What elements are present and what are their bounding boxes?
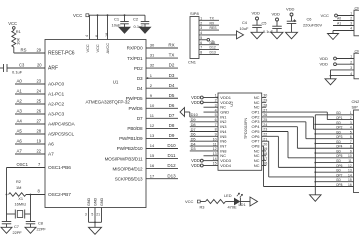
svg-text:A7: A7	[48, 152, 54, 158]
wire VDD to U2	[203, 160, 218, 162]
wire net D7 to IN4	[190, 131, 218, 133]
svg-text:A0-PC0: A0-PC0	[48, 82, 65, 88]
wire / net A0 to U1	[15, 83, 45, 85]
resistor R2 1M	[9, 193, 27, 197]
wire to C3	[0, 67, 4, 69]
wire GND pin 3	[88, 208, 90, 223]
wire U1 pin 32 net D2	[146, 67, 178, 69]
svg-text:2: 2	[200, 21, 202, 25]
stub NC	[262, 155, 267, 157]
svg-text:20: 20	[37, 63, 42, 68]
svg-text:MOSI/PW/PB3/D11: MOSI/PW/PB3/D11	[105, 156, 144, 161]
svg-text:0.1uF: 0.1uF	[263, 29, 274, 34]
svg-text:VCC: VCC	[321, 13, 330, 18]
wire OP7 to CN2 pin 14	[262, 140, 269, 142]
ground under C8	[25, 227, 36, 233]
svg-text:10uF: 10uF	[112, 22, 122, 27]
svg-text:30: 30	[150, 43, 155, 48]
svg-text:SCK/PB5/D13: SCK/PB5/D13	[115, 176, 143, 181]
junction C1	[124, 14, 126, 16]
svg-text:19: 19	[37, 139, 42, 144]
stub NC	[262, 160, 267, 162]
svg-text:6: 6	[350, 135, 352, 139]
svg-text:D11: D11	[210, 41, 216, 45]
svg-text:24: 24	[37, 89, 42, 94]
svg-text:D12: D12	[167, 163, 176, 168]
junction GND bus	[314, 133, 316, 135]
stub NC	[204, 106, 219, 108]
wire VCC to R1	[13, 29, 15, 30]
svg-text:D3: D3	[169, 73, 175, 78]
wire / net A2 to U1	[15, 103, 45, 105]
svg-text:13: 13	[150, 133, 155, 138]
svg-text:VDD: VDD	[320, 62, 329, 67]
svg-text:A5/PC5/SCL: A5/PC5/SCL	[48, 132, 74, 138]
wire U1 pin 12 net D8	[146, 127, 178, 129]
svg-text:22: 22	[37, 149, 42, 154]
stub NC	[262, 97, 267, 99]
junction OSC1 node	[6, 194, 8, 196]
port arrow left net D10	[180, 108, 185, 117]
terminal CN1 pin5	[207, 38, 210, 41]
wire GND to CN2	[315, 133, 353, 135]
junction	[107, 14, 109, 16]
wire U1 pin 14 net D10	[146, 148, 178, 150]
svg-text:GD: GD	[336, 169, 341, 173]
svg-text:A2-PC2: A2-PC2	[48, 102, 65, 108]
wire U1 pin 31 net TX	[146, 57, 178, 59]
wire CN1 pin6 net D11	[199, 44, 219, 46]
svg-text:GD: GD	[336, 140, 341, 144]
svg-text:D8: D8	[169, 123, 175, 128]
port arrow right LED net	[250, 197, 258, 206]
wire CN1 pin1 net TX	[199, 19, 219, 21]
svg-text:D11: D11	[168, 153, 176, 158]
svg-text:OP4: OP4	[336, 145, 343, 149]
wire C6 to ground	[291, 24, 293, 33]
svg-text:D7: D7	[137, 116, 143, 121]
svg-text:PB0/D8: PB0/D8	[127, 126, 143, 131]
svg-text:SIP8: SIP8	[190, 11, 199, 16]
wire / net A3 to U1	[15, 113, 45, 115]
wire GND pin 5	[94, 208, 96, 223]
wire GND row1 to CN2	[315, 114, 353, 116]
svg-text:8: 8	[200, 50, 202, 54]
svg-text:22PF: 22PF	[37, 226, 47, 231]
svg-text:D3: D3	[137, 76, 143, 81]
svg-text:PW/D6: PW/D6	[129, 106, 144, 111]
svg-text:6: 6	[200, 41, 202, 45]
wire OSC1 down to R2	[6, 168, 8, 195]
ground under U1	[89, 227, 102, 234]
wire U1 pin 2 net D4	[146, 87, 178, 89]
wire net D10 to IN1	[190, 116, 218, 118]
VDD terminal	[200, 164, 203, 167]
junction GND bus	[314, 123, 316, 125]
svg-text:22PF: 22PF	[13, 230, 23, 235]
svg-text:A3: A3	[17, 109, 23, 114]
wire net D8 to IN3	[190, 126, 218, 128]
svg-text:VDD: VDD	[320, 56, 329, 61]
junction GND bus	[314, 171, 316, 173]
svg-text:OP1: OP1	[336, 116, 343, 120]
svg-text:AVCC: AVCC	[105, 43, 110, 54]
svg-text:RS: RS	[21, 48, 27, 53]
junction at pin1	[217, 97, 219, 99]
ground for CN3	[328, 34, 339, 40]
svg-text:VDD4: VDD4	[220, 163, 231, 168]
svg-text:RX: RX	[168, 43, 174, 48]
svg-text:PW/PB2/D10: PW/PB2/D10	[117, 146, 143, 151]
wire OSC1	[7, 167, 46, 169]
stub NC	[204, 155, 219, 157]
VDD terminal	[200, 101, 203, 104]
wire GND to CN2	[315, 181, 353, 183]
svg-text:VDD: VDD	[272, 12, 281, 17]
svg-text:D6: D6	[169, 103, 175, 108]
wire U1 pin 17 net D13	[146, 178, 178, 180]
junction	[330, 75, 332, 77]
svg-text:GND: GND	[93, 197, 97, 206]
svg-text:7: 7	[200, 46, 202, 50]
wire OP4 to CN2 pin 8	[262, 126, 298, 128]
stub NC	[262, 165, 267, 167]
ground under C5	[271, 32, 283, 39]
svg-text:A1: A1	[337, 22, 341, 26]
svg-text:GD: GD	[336, 178, 341, 182]
svg-text:3: 3	[85, 213, 87, 217]
svg-text:14: 14	[348, 173, 352, 177]
wire reset to U1 pin 29	[14, 52, 45, 54]
junction GND bus	[314, 152, 316, 154]
svg-text:OSC1-PB6: OSC1-PB6	[48, 165, 71, 171]
svg-text:D2: D2	[169, 63, 175, 68]
svg-text:10uF: 10uF	[240, 26, 249, 31]
svg-text:C2: C2	[133, 16, 139, 21]
C6 polarity plus mark	[293, 20, 296, 22]
VCC terminal square LED	[197, 200, 200, 203]
wire VCC drop to U1 pin 4	[89, 15, 91, 39]
svg-text:5: 5	[200, 36, 202, 40]
svg-text:220uF/50V: 220uF/50V	[303, 22, 322, 27]
wire GND CN3 pin4	[333, 30, 354, 32]
wire U1 pin 15 net D11	[146, 158, 178, 160]
svg-text:OP3: OP3	[336, 135, 343, 139]
wire C5 to ground	[276, 29, 278, 33]
svg-text:D9: D9	[169, 133, 175, 138]
svg-text:D5: D5	[169, 93, 175, 98]
svg-text:C6: C6	[307, 16, 312, 21]
wire U1 pin 1 net D3	[146, 77, 178, 79]
port arrow right CN1 pin4	[237, 31, 244, 39]
wire GND stub	[204, 111, 219, 113]
wire GND to CN2	[315, 123, 353, 125]
wire GND to CN2	[315, 162, 353, 164]
svg-text:C7: C7	[14, 224, 19, 229]
svg-text:21: 21	[96, 213, 100, 217]
svg-text:10: 10	[150, 103, 155, 108]
capacitor C8 22PF	[26, 221, 36, 223]
svg-text:31: 31	[150, 53, 155, 58]
svg-text:D7: D7	[169, 113, 175, 118]
svg-text:ARF: ARF	[48, 66, 58, 72]
wire VCC drop to U1 pin 18	[107, 15, 109, 39]
svg-text:R1: R1	[16, 29, 22, 34]
svg-text:CN: CN	[355, 6, 359, 10]
junction OSC2 node	[30, 194, 32, 196]
svg-text:U1: U1	[113, 80, 119, 85]
svg-text:A3-PC3: A3-PC3	[48, 112, 65, 118]
svg-text:VCC: VCC	[85, 44, 90, 52]
svg-text:TPD2015FN: TPD2015FN	[243, 118, 248, 140]
wire GND to CN2	[315, 152, 353, 154]
wire OP5 to CN2 pin 10	[262, 131, 288, 133]
svg-text:28: 28	[37, 129, 42, 134]
svg-text:14: 14	[150, 143, 155, 148]
wire CN4 pin3 to ground	[331, 69, 355, 71]
svg-text:VDD: VDD	[252, 11, 261, 16]
wire U1 pin 10 net D6	[146, 107, 178, 109]
wire / net A4 to U1	[15, 123, 45, 125]
svg-text:D4: D4	[169, 83, 175, 88]
wire CN1 pin3 net RES	[199, 29, 219, 31]
driver U2 TPD2015FN body	[218, 93, 262, 170]
svg-text:GD: GD	[336, 149, 341, 153]
wire OSC1 down to X1/C7	[6, 195, 8, 222]
svg-text:6: 6	[95, 35, 99, 37]
wire U1 pin 16 net D12	[146, 168, 178, 170]
wire GND join	[89, 221, 102, 223]
ground under C1	[119, 27, 130, 33]
svg-text:VDD: VDD	[191, 100, 200, 105]
VDD terminal	[200, 159, 203, 162]
svg-text:16Mhz: 16Mhz	[15, 201, 27, 206]
svg-text:C4: C4	[242, 20, 248, 25]
svg-text:NC: NC	[254, 163, 260, 168]
svg-text:OP6: OP6	[336, 164, 343, 168]
svg-text:23: 23	[37, 79, 42, 84]
wire GND bus vertical	[314, 115, 316, 195]
wire VDD to C4	[256, 20, 258, 25]
svg-text:2: 2	[350, 116, 352, 120]
svg-text:X1: X1	[18, 196, 23, 201]
wire U1 pin 9 net D5	[146, 97, 178, 99]
wire CN4 pin4 to ground	[331, 75, 355, 77]
svg-text:CN1: CN1	[188, 60, 197, 65]
svg-text:4: 4	[350, 126, 352, 130]
svg-text:RESET-PC6: RESET-PC6	[48, 51, 75, 57]
svg-text:OP2: OP2	[336, 126, 343, 130]
ground under C4	[251, 32, 263, 39]
svg-text:18: 18	[105, 33, 109, 37]
svg-text:16: 16	[150, 163, 155, 168]
wire OP2 to CN2 pin 4	[262, 116, 314, 118]
wire VCC drop to U1 pin 6	[97, 15, 99, 39]
ground under CN2 bus	[310, 195, 322, 202]
svg-text:PD2: PD2	[134, 66, 143, 71]
svg-text:A1: A1	[17, 89, 23, 94]
wire OP1 to CN2 pin 2	[262, 111, 328, 113]
svg-text:32: 32	[150, 63, 155, 68]
svg-text:GND: GND	[100, 197, 104, 206]
wire net D9 to IN2	[190, 121, 218, 123]
junction GND bus	[314, 162, 316, 164]
LED cathode bar	[239, 198, 241, 206]
wire C3 to ARF pin 20	[7, 67, 45, 69]
VCC terminal square	[86, 14, 89, 17]
svg-text:8: 8	[350, 145, 352, 149]
svg-text:12: 12	[150, 123, 155, 128]
svg-text:1: 1	[350, 111, 352, 115]
wire VDD to U2	[203, 101, 218, 103]
wire net D4 to IN7	[190, 145, 218, 147]
wire CN1 pin7 net D12	[199, 49, 219, 51]
wire GND pin 21	[101, 208, 103, 223]
svg-text:A0: A0	[17, 79, 23, 84]
svg-text:A0: A0	[337, 17, 341, 21]
svg-text:470E: 470E	[228, 204, 237, 209]
wire U1 pin 30 net RX	[146, 47, 178, 49]
wire CN1 pin4	[199, 34, 237, 36]
svg-text:D3: D3	[191, 146, 196, 151]
svg-text:OP7: OP7	[336, 173, 343, 177]
wire OP6 to CN2 pin 12	[262, 135, 279, 137]
wire OP8 to CN2 pin 16	[262, 145, 264, 147]
svg-text:RES: RES	[210, 26, 218, 30]
junction GND bus	[314, 143, 316, 145]
wire OSC2 down to X1/C8	[30, 195, 32, 222]
svg-text:D10: D10	[167, 143, 176, 148]
svg-text:17: 17	[150, 173, 155, 178]
svg-text:R2: R2	[16, 179, 21, 184]
svg-text:OSC1: OSC1	[17, 162, 29, 167]
svg-text:VCC: VCC	[95, 44, 100, 52]
capacitor C2 0.1uF	[144, 15, 146, 21]
wire X1 right plate to OSC2 node	[25, 213, 31, 215]
wire U1 pin 13 net D9	[146, 137, 178, 139]
svg-text:VDD: VDD	[191, 163, 200, 168]
svg-text:TX: TX	[169, 53, 175, 58]
svg-text:GD: GD	[336, 159, 341, 163]
svg-text:1: 1	[200, 16, 202, 20]
junction on D3 row	[147, 77, 149, 79]
wire net D3 to IN8	[190, 150, 218, 152]
stub NC	[262, 106, 267, 108]
svg-text:VCC: VCC	[73, 13, 82, 18]
svg-text:A1-PC1: A1-PC1	[48, 92, 65, 98]
wire VDD to U2	[203, 97, 218, 99]
wire R2 to OSC2 pin 8	[26, 194, 45, 196]
svg-text:25: 25	[37, 99, 42, 104]
ground for CN4	[325, 79, 336, 85]
svg-text:VCC: VCC	[8, 21, 17, 26]
wire CN1 pin8 net D13	[199, 53, 219, 55]
svg-text:D13: D13	[167, 173, 176, 178]
wire / net A6 to U1	[15, 143, 45, 145]
svg-text:PW/PB1/D9: PW/PB1/D9	[119, 136, 143, 141]
svg-text:4: 4	[85, 35, 89, 37]
svg-text:A2: A2	[17, 99, 23, 104]
resistor R3 470E	[206, 200, 226, 204]
svg-text:29: 29	[37, 48, 42, 53]
wire net A1 to CN3 pin3	[333, 25, 354, 27]
VCC terminal circle R1	[13, 27, 16, 30]
svg-text:16: 16	[348, 183, 352, 187]
svg-text:26: 26	[37, 109, 42, 114]
ground under C2	[140, 27, 151, 33]
svg-text:LD1: LD1	[239, 202, 246, 207]
svg-text:MISO/PB4/D12: MISO/PB4/D12	[113, 166, 144, 171]
svg-text:A4: A4	[17, 119, 23, 124]
wire net D6 to IN5	[190, 135, 218, 137]
svg-text:R3: R3	[200, 204, 205, 209]
svg-text:GND: GND	[87, 197, 91, 206]
svg-text:RX: RX	[210, 21, 215, 25]
svg-text:LED: LED	[224, 193, 232, 198]
svg-text:C3: C3	[19, 63, 25, 68]
svg-text:1M: 1M	[16, 185, 21, 190]
svg-text:5: 5	[91, 213, 93, 217]
svg-text:VDD: VDD	[286, 7, 295, 12]
wire CN1 pin5	[199, 39, 207, 41]
wire VCC to R3	[200, 201, 205, 203]
wire to X1 left plate	[7, 213, 16, 215]
svg-text:GD: GD	[336, 121, 341, 125]
svg-text:OSC2-PB7: OSC2-PB7	[48, 192, 71, 198]
svg-text:D12: D12	[210, 46, 216, 50]
wire VDD to C5	[276, 21, 278, 26]
svg-text:TX/PD1: TX/PD1	[127, 56, 143, 61]
wire VDD to U2	[203, 165, 218, 167]
svg-text:C8: C8	[38, 220, 43, 225]
svg-text:A6: A6	[48, 142, 54, 148]
wire U1 pin 11 net D7	[146, 117, 178, 119]
wire OP3 to CN2 pin 6	[262, 121, 306, 123]
stub NC	[262, 101, 267, 103]
svg-text:RX/PD0: RX/PD0	[127, 46, 143, 51]
wire / net A7 to U1	[15, 153, 45, 155]
svg-text:D13: D13	[210, 50, 216, 54]
svg-text:D4: D4	[137, 86, 143, 91]
junction	[97, 14, 99, 16]
VDD terminal	[200, 96, 203, 99]
wire GND to CN2	[315, 171, 353, 173]
svg-text:C5: C5	[262, 20, 267, 25]
svg-text:VCC: VCC	[185, 199, 194, 204]
svg-text:A7: A7	[17, 149, 23, 154]
svg-text:CN: CN	[355, 49, 359, 53]
svg-text:10K: 10K	[16, 38, 21, 45]
svg-text:A5: A5	[17, 129, 23, 134]
junction GND bus	[314, 181, 316, 183]
stub NC	[262, 150, 267, 152]
svg-text:GD: GD	[336, 111, 341, 115]
svg-text:OP5: OP5	[336, 154, 343, 158]
wire LED to port	[240, 201, 250, 203]
svg-text:A6: A6	[17, 139, 23, 144]
wire VDD to C6	[291, 16, 293, 21]
svg-text:ATMEGA328TQFP-32: ATMEGA328TQFP-32	[86, 100, 131, 105]
svg-text:0.1uF: 0.1uF	[134, 24, 145, 29]
wire / net A5 to U1	[15, 133, 45, 135]
svg-text:PW/PD5: PW/PD5	[126, 96, 143, 101]
svg-text:15: 15	[150, 153, 155, 158]
svg-text:10: 10	[348, 154, 352, 158]
junction GND	[94, 221, 96, 223]
svg-text:20: 20	[263, 142, 267, 146]
capacitor C7 22PF	[2, 221, 12, 223]
svg-text:SIP: SIP	[352, 104, 359, 109]
